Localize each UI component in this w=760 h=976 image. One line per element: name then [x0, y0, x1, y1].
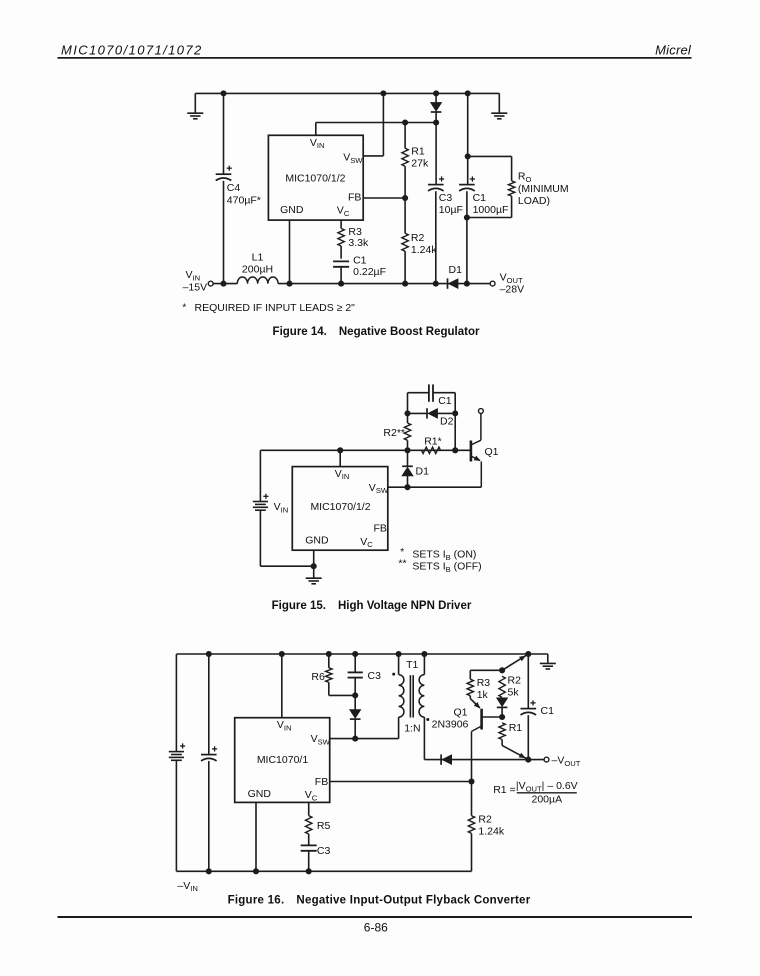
- C1 polarity + fig16: [530, 700, 535, 705]
- wire left input drop fig16: [175, 654, 177, 752]
- terminal VOUT fig14: [490, 281, 495, 286]
- resistor R2 1.24k fig16: [468, 816, 474, 834]
- svg-text:C4: C4: [227, 182, 241, 194]
- wire top ground rail fig14: [195, 92, 499, 94]
- terminal collector fig15: [479, 409, 484, 414]
- svg-text:R2: R2: [411, 232, 425, 244]
- resistor R3 3.3k: [338, 228, 344, 246]
- wire C3 lower: [435, 191, 437, 283]
- svg-text:Micrel: Micrel: [655, 43, 692, 58]
- phasing dot primary: [392, 673, 395, 676]
- svg-text:|VOUT| – 0.6V: |VOUT| – 0.6V: [516, 780, 578, 793]
- svg-text:2N3906: 2N3906: [432, 718, 469, 730]
- capacitor C3 comp fig16: [301, 845, 317, 850]
- wire FB to divider: [363, 197, 405, 199]
- capacitor C3 10uF: [428, 185, 444, 191]
- junction bottom rail / C4: [220, 281, 226, 287]
- svg-text:1000µF: 1000µF: [473, 204, 509, 216]
- wire D1 lower fig15: [407, 476, 409, 488]
- svg-text:*: *: [182, 302, 186, 314]
- svg-text:R1: R1: [509, 722, 523, 734]
- wire GND pin down fig14: [289, 220, 291, 284]
- wire R3 lower stub fig16: [469, 696, 471, 699]
- svg-text:VIN: VIN: [277, 719, 292, 732]
- junction diode bottom: [433, 119, 439, 125]
- svg-text:VC: VC: [360, 536, 373, 549]
- wire top rail fig16: [176, 653, 547, 655]
- wire R2 lower stub fig15: [407, 440, 409, 450]
- svg-text:–28V: –28V: [500, 284, 525, 296]
- svg-text:GND: GND: [280, 204, 304, 216]
- svg-text:T1: T1: [406, 659, 418, 671]
- wire R1 lower stub fig16: [501, 740, 503, 746]
- junction ground node fig15: [311, 563, 317, 569]
- svg-text:Q1: Q1: [453, 707, 467, 719]
- junction bias top fig16: [499, 667, 505, 673]
- svg-text:C1: C1: [541, 705, 555, 717]
- wire D2 left fig15: [408, 412, 427, 414]
- svg-text:R5: R5: [317, 820, 331, 832]
- ground top-right fig14: [491, 113, 507, 119]
- wire RO right upper: [511, 156, 513, 181]
- wire C4 upper: [223, 93, 225, 173]
- wire C1 lower fig14: [466, 191, 468, 283]
- IC U1 MIC1070/1/2 fig15: [292, 467, 388, 551]
- junction C1 / RO bottom: [464, 214, 470, 220]
- ground fig16: [540, 663, 556, 669]
- wire R1 to FB: [404, 166, 406, 198]
- junction rail/primary: [396, 651, 402, 657]
- wire VIN pin stub fig14: [315, 123, 317, 136]
- capacitor C1 fig15: [429, 384, 433, 401]
- resistor R2 1.24k: [402, 233, 408, 251]
- diode bias fig16: [497, 698, 508, 706]
- junction rail/C1: [525, 651, 531, 657]
- svg-text:1k: 1k: [477, 689, 489, 701]
- wire D1 upper fig15: [407, 450, 409, 466]
- svg-text:VC: VC: [337, 204, 350, 217]
- svg-text:R6: R6: [311, 671, 325, 683]
- diode snubber fig16: [350, 710, 361, 718]
- svg-text:**: **: [398, 558, 406, 570]
- wire C1 upper fig16: [527, 654, 529, 708]
- junction bottom/C3 fig16: [306, 868, 312, 874]
- svg-text:D1: D1: [416, 465, 430, 477]
- wire ground stem left fig14: [194, 93, 196, 112]
- wire secondary top fig16: [423, 654, 425, 675]
- junction D2 left fig15: [404, 410, 410, 416]
- capacitor C1 out fig16: [521, 709, 537, 715]
- diode D1 fig15: [402, 468, 413, 476]
- C1 polarity +: [470, 176, 475, 181]
- wire diode to base fig16: [501, 707, 503, 717]
- wire ground stem fig16: [547, 654, 549, 663]
- svg-text:FB: FB: [348, 192, 361, 204]
- wire C1 right riser fig15: [454, 393, 456, 414]
- wire VSW to primary fig16: [330, 738, 399, 740]
- wire R2 upper: [404, 198, 406, 233]
- transformer T1 core: [410, 675, 413, 717]
- wire VIN to diode node: [316, 122, 436, 124]
- wire left drop fig15: [259, 450, 261, 501]
- wire C1 left riser fig15: [407, 393, 409, 414]
- junction D1 bottom fig15: [404, 484, 410, 490]
- svg-text:C1: C1: [353, 254, 367, 266]
- svg-text:GND: GND: [248, 788, 272, 800]
- svg-text:VIN: VIN: [310, 137, 325, 150]
- svg-text:MIC1070/1: MIC1070/1: [257, 754, 309, 766]
- wire R6 to C3 node fig16: [329, 694, 355, 696]
- resistor R1 fig16: [499, 723, 505, 740]
- wire RO top: [468, 155, 512, 157]
- wire VC stub fig16: [308, 802, 310, 815]
- wire R2 to bottom rail fig16: [471, 833, 473, 871]
- svg-text:GND: GND: [305, 535, 329, 547]
- wire C4 lower: [223, 181, 225, 284]
- svg-text:C3: C3: [317, 845, 331, 857]
- svg-text:10µF: 10µF: [439, 204, 463, 216]
- svg-text:Q1: Q1: [485, 446, 499, 458]
- wire bias diagonal to rail fig16: [502, 654, 528, 670]
- junction snubber node fig16: [352, 692, 358, 698]
- svg-text:–VIN: –VIN: [177, 880, 197, 893]
- wire output fig16: [424, 759, 544, 761]
- svg-text:D1: D1: [449, 264, 463, 276]
- svg-text:VIN: VIN: [186, 269, 201, 282]
- svg-text:C1: C1: [473, 192, 487, 204]
- IC U1 MIC1070/1 fig16: [235, 718, 330, 803]
- diode catch fig14 top: [431, 103, 442, 111]
- diode output rectifier fig16: [442, 755, 451, 764]
- svg-text:–VOUT: –VOUT: [552, 754, 581, 767]
- capacitor input bulk fig16: [201, 755, 217, 761]
- wire left drop lower fig15: [259, 510, 261, 566]
- svg-text:3.3k: 3.3k: [348, 237, 369, 249]
- diode D1 fig14: [449, 279, 458, 288]
- junction top rail / diode: [433, 90, 439, 96]
- svg-text:LOAD): LOAD): [518, 195, 550, 207]
- resistor R5 fig16: [306, 816, 312, 834]
- wire primary bottom fig16: [398, 717, 400, 739]
- transistor Q1 fig15 (NPN): [471, 413, 481, 487]
- wire bottom fig15: [260, 565, 313, 567]
- wire VSW pin stub fig14: [363, 155, 383, 157]
- svg-text:L1: L1: [252, 251, 264, 263]
- terminal -VOUT fig16: [544, 757, 549, 762]
- wire input cap upper fig16: [208, 654, 210, 754]
- battery polarity +: [263, 494, 268, 499]
- junction top rail / VSW: [380, 90, 386, 96]
- resistor RO minimum load: [508, 181, 514, 196]
- wire R6 lower fig16: [328, 682, 330, 695]
- junction top rail / C4: [220, 90, 226, 96]
- svg-text:200µA: 200µA: [532, 793, 563, 805]
- wire R2 to bottom rail: [404, 251, 406, 283]
- wire input cap lower fig16: [208, 761, 210, 871]
- wire ground stem fig15: [313, 566, 315, 577]
- wire C1 right top fig15: [433, 392, 455, 394]
- wire R1 diagonal to out fig16: [502, 745, 528, 759]
- junction rail/VIN: [279, 651, 285, 657]
- C3 polarity +: [439, 176, 444, 181]
- resistor R3 1k fig16: [467, 679, 473, 696]
- svg-text:5k: 5k: [508, 687, 520, 699]
- wire C1 left top fig15: [408, 392, 429, 394]
- terminal VIN fig14: [208, 281, 213, 286]
- wire snubber diode lower fig16: [354, 719, 356, 739]
- svg-text:FB: FB: [374, 523, 387, 535]
- junction R2/D1 fig15: [404, 447, 410, 453]
- resistor R6 fig16: [326, 668, 332, 683]
- svg-text:(MINIMUM: (MINIMUM: [518, 183, 569, 195]
- capacitor C1 0.22uF: [333, 261, 349, 266]
- ground top-left fig14: [187, 113, 203, 119]
- wire bottom rail left fig14: [213, 283, 237, 285]
- wire GND pin down fig16: [255, 802, 257, 871]
- wire D2 node to base rail fig15: [454, 413, 456, 450]
- junction bottom rail / C1 1000uF: [464, 281, 470, 287]
- svg-text:27k: 27k: [411, 157, 429, 169]
- wire VIN pin stub fig15: [339, 450, 341, 466]
- junction rail/C2: [206, 651, 212, 657]
- formula fraction bar: [517, 792, 577, 794]
- svg-text:C3: C3: [368, 670, 382, 682]
- wire left input drop lower fig16: [175, 760, 177, 871]
- wire RO right lower: [511, 196, 513, 217]
- junction rail/secondary: [421, 651, 427, 657]
- wire C1 lower fig16: [527, 715, 529, 759]
- svg-text:R3: R3: [477, 677, 491, 689]
- svg-text:VSW: VSW: [311, 733, 331, 746]
- wire secondary bottom fig16: [423, 717, 425, 760]
- wire R3 upper stub fig16: [469, 670, 471, 679]
- Q1 emitter arrow fig16: [474, 702, 481, 708]
- junction rail/R6: [326, 651, 332, 657]
- svg-text:470µF*: 470µF*: [227, 195, 261, 207]
- svg-text:–15V: –15V: [183, 282, 208, 294]
- svg-text:*: *: [400, 546, 404, 558]
- svg-text:6-86: 6-86: [364, 921, 388, 935]
- wire VIN pin riser fig16: [281, 654, 283, 718]
- junction bottom/GND fig16: [253, 868, 259, 874]
- junction top rail / C1: [465, 90, 471, 96]
- wire diode lower fig14: [435, 112, 437, 123]
- phasing dot secondary: [426, 718, 429, 721]
- C4 polarity +: [227, 166, 232, 171]
- wire R5 to C3 fig16: [308, 834, 310, 845]
- battery -VIN fig16: [169, 752, 184, 761]
- svg-text:R1: R1: [411, 145, 425, 157]
- wire R2 upper stub fig15: [407, 413, 409, 423]
- capacitor C1 1000uF: [459, 185, 475, 191]
- svg-text:VSW: VSW: [369, 482, 389, 495]
- wire C3 to bottom rail fig16: [308, 851, 310, 872]
- IC U1 MIC1070/1/2 fig14: [268, 135, 363, 220]
- svg-text:FB: FB: [315, 776, 328, 788]
- svg-text:1.24k: 1.24k: [478, 825, 504, 837]
- svg-text:VIN: VIN: [274, 501, 289, 514]
- junction bottom rail / C3: [433, 281, 439, 287]
- wire bottom rail fig14: [278, 283, 490, 285]
- wire R6 upper fig16: [328, 654, 330, 668]
- svg-text:VSW: VSW: [343, 152, 363, 165]
- wire VC pin stub: [340, 220, 342, 228]
- junction C1/D2 riser fig15: [452, 447, 458, 453]
- junction R1 top: [402, 119, 408, 125]
- resistor R1* fig15: [422, 447, 441, 453]
- junction VSW/snubber fig16: [352, 736, 358, 742]
- input cap polarity +: [212, 746, 217, 751]
- svg-text:R2**: R2**: [383, 427, 405, 439]
- svg-text:R1*: R1*: [424, 435, 442, 447]
- junction FB / R1 / R2: [402, 195, 408, 201]
- wire snubber diode upper fig16: [354, 695, 356, 710]
- svg-text:1.24k: 1.24k: [411, 244, 437, 256]
- svg-text:C1: C1: [438, 395, 452, 407]
- svg-text:SETS IB (OFF): SETS IB (OFF): [412, 560, 481, 573]
- resistor R2** fig15: [404, 423, 410, 440]
- svg-text:REQUIRED IF INPUT LEADS ≥ 2": REQUIRED IF INPUT LEADS ≥ 2": [195, 302, 356, 314]
- resistor R2 5k fig16: [499, 676, 505, 697]
- svg-text:VIN: VIN: [335, 468, 350, 481]
- wire R1 upper: [404, 123, 406, 149]
- ground fig15: [306, 578, 322, 584]
- svg-text:Figure 15.High Voltage NPN Dri: Figure 15.High Voltage NPN Driver: [272, 600, 472, 612]
- svg-text:MIC1070/1/2: MIC1070/1/2: [310, 501, 370, 513]
- wire primary top fig16: [398, 654, 400, 675]
- svg-text:MIC1070/1/2: MIC1070/1/2: [285, 173, 345, 185]
- footer rule: [58, 916, 693, 918]
- transformer T1 primary winding: [399, 675, 404, 718]
- junction D2 right fig15: [452, 410, 458, 416]
- svg-text:Figure 16.Negative Input-Outpu: Figure 16.Negative Input-Output Flyback …: [228, 894, 531, 906]
- wire R3 to C1: [340, 246, 342, 259]
- svg-text:R1 =: R1 =: [493, 784, 515, 796]
- wire bottom rail fig16: [176, 870, 471, 872]
- svg-text:C3: C3: [439, 192, 453, 204]
- svg-text:MIC1070/1071/1072: MIC1070/1071/1072: [61, 43, 203, 58]
- junction rail/C3: [352, 651, 358, 657]
- junction VIN stub fig15: [337, 447, 343, 453]
- wire VSW riser to top rail: [382, 93, 384, 155]
- arrowhead on R1 diagonal fig16: [519, 753, 526, 758]
- svg-text:R2: R2: [478, 814, 492, 826]
- wire C3 upper fig16: [354, 654, 356, 672]
- svg-text:VC: VC: [305, 789, 318, 802]
- svg-text:Figure 14.Negative Boost Regul: Figure 14.Negative Boost Regulator: [273, 326, 480, 338]
- wire R3 top link fig16: [470, 669, 502, 671]
- svg-text:200µH: 200µH: [242, 264, 273, 276]
- Q1 emitter arrow fig15: [474, 456, 481, 461]
- wire diode upper fig14: [435, 93, 437, 102]
- battery polarity + fig16: [180, 743, 185, 748]
- wire GND pin fig15: [313, 550, 315, 566]
- junction bottom rail / R2: [402, 281, 408, 287]
- transistor Q1 2N3906 fig16 (PNP): [472, 709, 503, 761]
- junction bottom/C2 fig16: [206, 868, 212, 874]
- resistor R1 27k: [402, 148, 408, 166]
- wire C1 to bottom rail: [340, 267, 342, 284]
- svg-text:0.22µF: 0.22µF: [353, 266, 386, 278]
- junction base node fig16: [499, 714, 505, 720]
- capacitor C3 snubber fig16: [348, 672, 363, 677]
- header rule: [58, 57, 692, 59]
- wire C1 upper fig14: [467, 93, 469, 184]
- wire emitter diagonal fig16: [470, 699, 480, 708]
- arrowhead on bias diagonal fig16: [519, 656, 526, 662]
- junction C1 / RO top: [465, 153, 471, 159]
- wire C3 upper: [435, 123, 437, 185]
- wire D2 right fig15: [437, 412, 455, 414]
- svg-text:R2: R2: [508, 675, 522, 687]
- wire VSW to emitter fig15: [388, 486, 482, 488]
- battery VIN fig15: [253, 502, 268, 511]
- diode D2 fig15: [428, 409, 437, 418]
- wire base rail fig15: [260, 449, 471, 451]
- junction bottom rail / GND pin: [286, 281, 292, 287]
- wire collector to R2 fig16: [471, 760, 473, 816]
- wire C3 lower fig16: [354, 678, 356, 696]
- junction FB node fig16: [468, 778, 474, 784]
- svg-text:1:N: 1:N: [404, 723, 420, 735]
- inductor L1 200uH: [237, 277, 278, 284]
- wire ground stem right fig14: [498, 93, 500, 112]
- wire FB to divider fig16: [330, 781, 472, 783]
- svg-text:D2: D2: [440, 416, 454, 428]
- junction output/C1 fig16: [525, 757, 531, 763]
- junction bottom rail / C1: [338, 281, 344, 287]
- capacitor C4 470uF: [216, 174, 232, 180]
- wire RO bottom: [467, 217, 512, 219]
